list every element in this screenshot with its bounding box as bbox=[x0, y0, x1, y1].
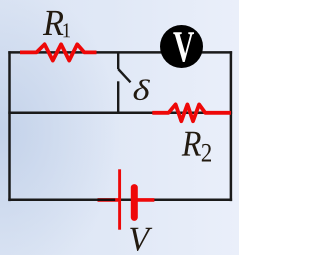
label R1 bbox=[43, 11, 64, 35]
voltmeter U1: body bbox=[160, 25, 203, 68]
battery: right lead bbox=[138, 198, 155, 202]
wire: middle rail bbox=[8, 112, 232, 115]
voltmeter U1: V marking bbox=[173, 32, 194, 62]
wire: top rail bbox=[8, 51, 232, 54]
switch: lower stub bbox=[117, 81, 119, 113]
battery: left lead wire overlay bbox=[98, 198, 116, 201]
battery: short plate bbox=[131, 188, 138, 218]
switch: upper stub bbox=[117, 52, 119, 69]
resistor R2 bbox=[152, 104, 231, 121]
label R2 bbox=[182, 132, 201, 156]
wire: right rail bbox=[230, 51, 233, 201]
label V source bbox=[130, 228, 152, 251]
resistor R1 bbox=[20, 44, 97, 60]
label delta bbox=[134, 79, 150, 100]
wire: bottom rail bbox=[8, 199, 232, 202]
battery: left lead bbox=[98, 198, 119, 202]
switch: blade bbox=[118, 69, 130, 82]
battery: long plate bbox=[118, 169, 121, 229]
wire: left rail bbox=[8, 51, 11, 201]
